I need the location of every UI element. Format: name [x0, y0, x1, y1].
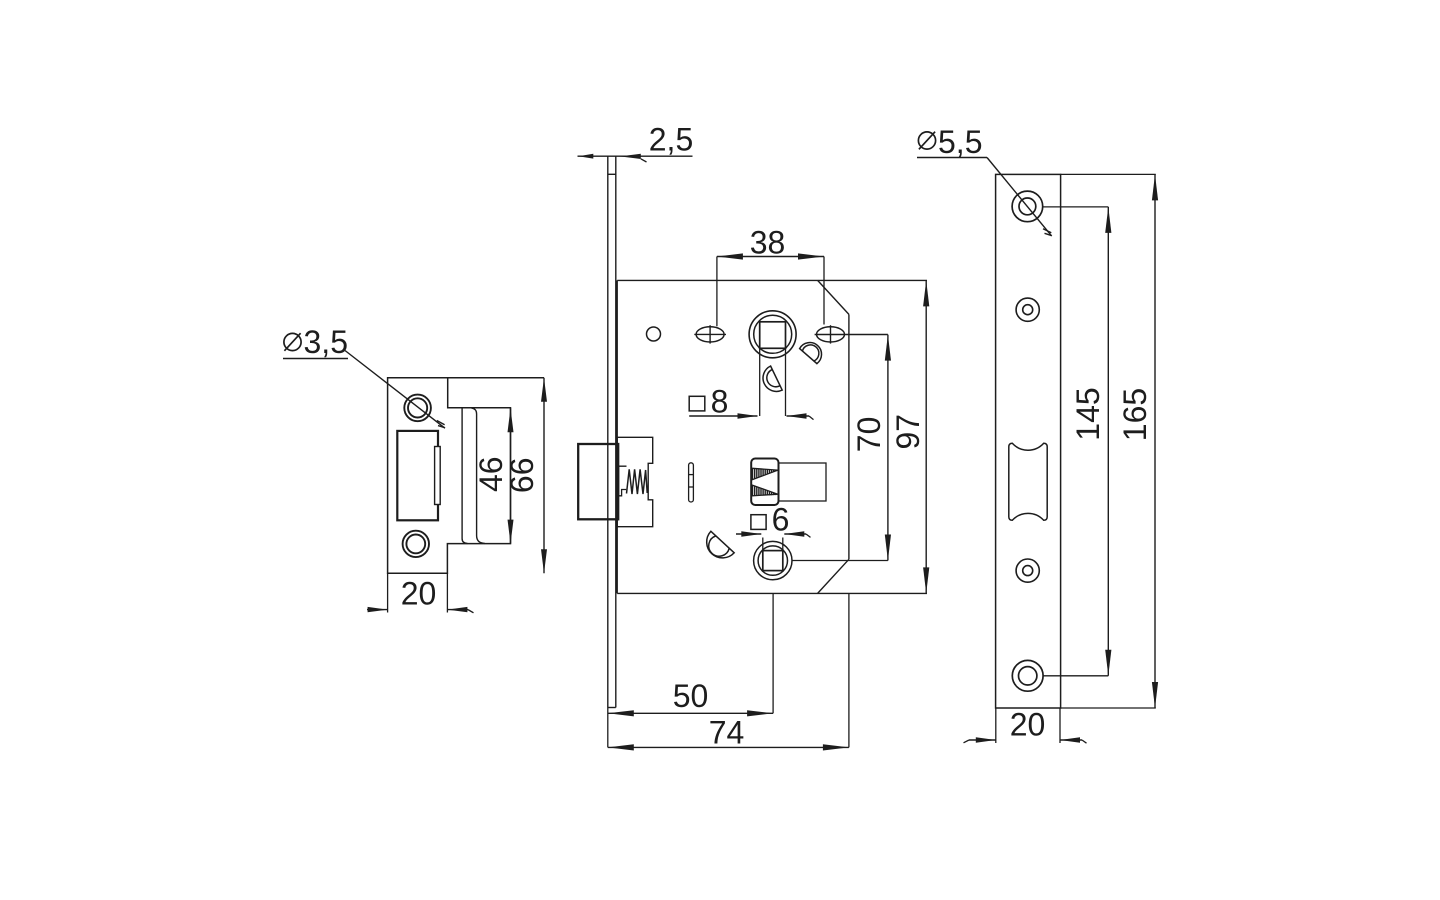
follower with serrated wedges — [751, 459, 778, 506]
label square 8 and dimension 8 — [689, 384, 813, 420]
svg-text:8: 8 — [711, 384, 729, 420]
dimension 145 — [1043, 207, 1112, 676]
label square 6 and dimension 6 — [736, 502, 811, 538]
dimension 38 — [717, 225, 824, 327]
dimension 70 — [792, 335, 891, 561]
leader line dia 3,5 — [345, 351, 445, 429]
dimension 74 — [608, 593, 849, 750]
svg-text:145: 145 — [1070, 387, 1106, 440]
svg-text:50: 50 — [673, 678, 709, 714]
lock body outline — [617, 280, 927, 593]
svg-text:20: 20 — [1010, 707, 1046, 743]
dimension 165 — [1117, 174, 1158, 708]
svg-text:97: 97 — [890, 414, 926, 450]
faceplate screw hole bottom — [1012, 660, 1043, 691]
svg-text:66: 66 — [504, 458, 540, 494]
dimension 50 — [608, 593, 773, 747]
svg-text:2,5: 2,5 — [649, 122, 693, 158]
svg-text:165: 165 — [1117, 388, 1153, 441]
strike plate lip fold line 1 — [462, 408, 467, 544]
faceplate latch cutout — [1009, 443, 1047, 520]
oval slot left — [694, 325, 726, 343]
faceplate side view — [608, 156, 616, 707]
faceplate small hole upper — [1016, 298, 1039, 321]
svg-text:6: 6 — [772, 502, 790, 538]
svg-text:3,5: 3,5 — [304, 324, 348, 360]
dimension 46 — [473, 408, 514, 543]
faceplate front outline — [996, 174, 1156, 708]
dimension 66 — [504, 378, 547, 574]
oval slot right — [815, 325, 888, 343]
spindle hole square 8 — [749, 311, 796, 416]
strike plate screw hole top — [404, 395, 431, 422]
leader line dia 5,5 — [987, 158, 1052, 237]
svg-text:38: 38 — [750, 225, 786, 261]
svg-text:70: 70 — [851, 417, 887, 453]
crescent bottom left — [707, 531, 735, 558]
latch spring — [627, 469, 648, 494]
strike plate screw hole bottom — [403, 531, 429, 557]
crescent below spindle — [763, 366, 782, 391]
dimension 20 strike plate — [367, 573, 474, 613]
strike plate outline — [388, 378, 544, 574]
svg-text:5,5: 5,5 — [938, 124, 982, 160]
label dia 5,5 — [917, 124, 987, 160]
strike plate lip fold line 2 — [471, 408, 485, 544]
dimension 20 faceplate — [964, 707, 1087, 744]
svg-text:20: 20 — [401, 576, 437, 612]
wc spindle hole square 6 — [754, 538, 792, 580]
faceplate screw hole top — [1012, 191, 1043, 222]
faceplate small hole lower — [1016, 559, 1039, 582]
strike plate latch opening — [397, 431, 438, 520]
dimension 97 — [890, 280, 929, 593]
label dia 3,5 — [283, 324, 348, 360]
mounting hole small circle — [647, 327, 661, 341]
latch bolt body — [617, 437, 653, 526]
follower housing — [779, 463, 827, 501]
latch bolt head — [578, 444, 618, 519]
guide slot — [689, 463, 694, 502]
dimension 2,5 — [578, 122, 694, 163]
crescent right of spindle — [800, 343, 822, 364]
svg-text:74: 74 — [709, 715, 745, 751]
spring seat — [619, 466, 627, 496]
strike plate latch tab — [435, 447, 441, 505]
